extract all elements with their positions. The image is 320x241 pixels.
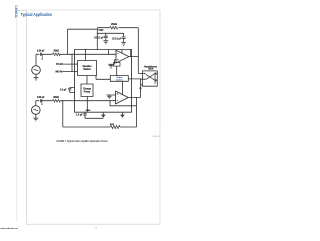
feedback loop A1 — [109, 50, 131, 57]
wire C2 to R2 — [42, 100, 53, 102]
ground marker at sleeve — [139, 88, 142, 91]
svg-text:C3 2.2 µF: C3 2.2 µF — [112, 38, 122, 40]
bypass capacitor C5 — [122, 33, 126, 42]
op-amp A1 — [116, 50, 129, 63]
op-amp A2 — [116, 91, 129, 104]
svg-text:Pump: Pump — [84, 91, 91, 93]
ground pin 1 under IC — [102, 112, 104, 114]
resistor R1 — [52, 53, 60, 56]
svg-text:20kΩ: 20kΩ — [53, 51, 59, 53]
ground below V1 — [34, 74, 39, 80]
wire V2 to C2 — [36, 101, 39, 106]
svg-text:1.0 µF: 1.0 µF — [76, 115, 83, 117]
svg-text:Charge: Charge — [83, 88, 92, 90]
svg-text:Control: Control — [116, 78, 123, 81]
capacitor C1 — [41, 53, 42, 56]
bottom return wire left — [63, 101, 110, 127]
node input2 to return — [62, 100, 63, 101]
svg-text:0.39 µF: 0.39 µF — [37, 97, 45, 99]
svg-text:5: 5 — [95, 227, 97, 230]
node bus joins input1 — [67, 54, 68, 55]
svg-text:Jack: Jack — [148, 69, 154, 71]
wire A2 output up to jack ring — [141, 79, 145, 97]
wire IC top to A1 power pin — [121, 50, 123, 54]
ground pin 2 under IC — [121, 112, 123, 114]
wire switch block to charge pump — [86, 75, 88, 84]
wire tap down to pins IN1 and IN2 — [71, 54, 73, 71]
ground at A1 non-inverting input — [108, 60, 116, 68]
page frame — [26, 10, 160, 224]
capacitor C6 under IC — [84, 112, 85, 113]
wire control block to output sense — [128, 78, 140, 80]
wire R1 to op-amp A1 inverting input — [60, 53, 116, 55]
wire left bus up to top rail — [68, 29, 98, 54]
svg-text:20kΩ: 20kΩ — [53, 97, 59, 99]
svg-text:20kΩ: 20kΩ — [111, 24, 117, 26]
svg-text:PC-IN: PC-IN — [56, 64, 63, 66]
polarity stub at C1 — [41, 54, 43, 58]
wire pin IN1 into switch block — [63, 63, 77, 65]
svg-text:GND: GND — [86, 110, 91, 112]
switch block — [78, 60, 97, 75]
ground at A2 non-inverting input — [106, 95, 115, 99]
jack inner contact bar — [154, 73, 156, 85]
svg-text:FIGURE 1. Typical Audio Amplif: FIGURE 1. Typical Audio Amplifier Applic… — [56, 139, 107, 143]
wire R3 to output node — [119, 28, 139, 74]
resistor R3 top — [110, 26, 118, 29]
ground below C5 — [121, 43, 126, 46]
wire pin IN2 into switch block — [63, 71, 77, 73]
control block — [110, 76, 128, 82]
wire V1 to C1 — [36, 54, 39, 65]
wire jack sleeve — [141, 84, 143, 86]
node tap at IN1 — [71, 64, 72, 65]
svg-text:MO-IN: MO-IN — [56, 71, 63, 73]
VDD feed wire — [96, 28, 98, 50]
feedback wire top — [97, 27, 109, 29]
bypass capacitor C4 — [105, 33, 106, 34]
svg-text:0.39 µF: 0.39 µF — [37, 51, 45, 53]
wire C1 to R1 — [42, 53, 53, 55]
wire R2 to op-amp A2 inverting input — [60, 100, 116, 102]
wire into control block — [96, 76, 110, 80]
svg-text:LM4911: LM4911 — [14, 5, 18, 18]
capacitor C2 — [40, 99, 41, 102]
flying capacitor C3 — [68, 88, 74, 93]
resistor RL — [110, 125, 120, 128]
IC U1 outline — [75, 49, 132, 112]
feedback loop A2 — [110, 98, 137, 106]
jack ring contact — [146, 74, 155, 80]
sidebar edge shading — [16, 19, 18, 222]
svg-text:32Ω: 32Ω — [110, 124, 114, 126]
signal source V2 — [32, 106, 41, 115]
supply rail — [97, 32, 123, 34]
wire output node to jack tip — [138, 73, 144, 75]
wire control block to A2 — [122, 81, 124, 94]
wire charge pump to IC bottom — [86, 96, 88, 112]
signal source V1 — [32, 66, 41, 75]
svg-text:Speaker: Speaker — [82, 66, 91, 68]
jack terminal pads — [155, 73, 157, 75]
wire IC top to switch block — [85, 49, 87, 60]
node input1 tap — [71, 54, 72, 55]
wire gain block to control block — [116, 66, 118, 76]
ground below V2 — [33, 114, 38, 121]
svg-text:www.national.com: www.national.com — [1, 227, 18, 230]
bottom return wire right — [120, 106, 137, 127]
polarity stub at C2 — [41, 101, 43, 104]
svg-text:1.0 µF: 1.0 µF — [60, 89, 67, 91]
svg-text:VDD: VDD — [98, 30, 103, 32]
jack tip contact — [146, 74, 155, 80]
headphone jack J3 — [142, 71, 157, 86]
charge pump block — [81, 84, 93, 97]
svg-text:Switch: Switch — [83, 68, 91, 71]
wire A2 output — [128, 97, 140, 99]
svg-text:Typical Application: Typical Application — [21, 12, 53, 17]
ground below C4 — [103, 41, 108, 44]
svg-text:30011215: 30011215 — [153, 136, 160, 138]
resistor R2 — [52, 99, 60, 102]
wire A1 output — [129, 56, 138, 58]
gain block — [114, 62, 121, 66]
svg-text:C2 2.2 µF: C2 2.2 µF — [94, 38, 104, 40]
